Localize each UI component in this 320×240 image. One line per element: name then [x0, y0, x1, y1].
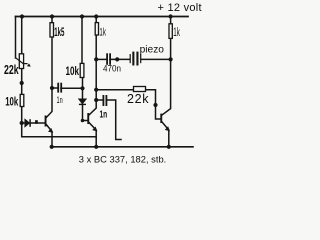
wire piezo to right riser — [141, 58, 171, 60]
resistor 1k (middle) body — [95, 23, 98, 35]
node dot bottom rail Q3 — [167, 145, 171, 149]
node dot rail 1k mid — [94, 14, 98, 18]
wire +12V top rail — [16, 16, 189, 18]
wire bottom 0V rail — [52, 146, 193, 148]
svg-text:1k: 1k — [99, 25, 106, 37]
wire 470n to piezo — [110, 58, 130, 60]
node dot 1n right branch — [94, 98, 98, 102]
svg-text:10k: 10k — [5, 96, 18, 109]
diode D3 (vertical, pointing down) — [79, 99, 86, 104]
wire Q1 collector riser — [46, 37, 52, 118]
node dot rail 10k mid — [80, 14, 84, 18]
wire D3 cathode to Q2 base — [83, 105, 88, 121]
wire left 1n cap lead left — [52, 87, 58, 89]
wire right riser 1k bottom to Q3 collector — [162, 38, 171, 115]
svg-text:10k: 10k — [66, 66, 80, 79]
diode D2 (small block symbol) — [35, 120, 38, 124]
wire 22k to Q3 base — [146, 90, 161, 119]
resistor 1k5 body — [50, 23, 54, 37]
transistor Q1 — [45, 116, 54, 133]
svg-text:3 x BC 337, 182, stb.: 3 x BC 337, 182, stb. — [79, 155, 167, 166]
transistor Q2 — [87, 113, 97, 131]
potentiometer 22k body — [19, 54, 23, 69]
wire pot bottom to 10k — [21, 69, 23, 95]
capacitor C2 470n plates — [107, 53, 110, 65]
svg-text:+ 12 volt: + 12 volt — [158, 2, 202, 14]
svg-text:piezo: piezo — [140, 44, 165, 55]
wire 1k (middle) top to rail — [95, 17, 97, 23]
wire 470n lead left — [96, 58, 107, 60]
svg-text:470n: 470n — [103, 63, 121, 74]
node dot 470n branch — [94, 57, 98, 61]
node dot rail 1k5 — [50, 14, 54, 18]
potentiometer 22k wiper arrow — [16, 58, 31, 67]
node dot bottom rail Q1 — [50, 145, 54, 149]
diode D1 — [25, 119, 30, 127]
node dot bottom rail Q2 — [94, 145, 98, 149]
node dot 22k branch — [94, 88, 98, 92]
wire 10k bottom to diode junction and down to ground wire — [22, 107, 97, 137]
capacitor C1 1n (left) plates — [58, 83, 61, 93]
node dot 22k wire mid — [153, 103, 157, 107]
node dot rail 1k right — [169, 14, 173, 18]
svg-text:22k: 22k — [127, 92, 149, 106]
wire 1k5 top to rail — [51, 17, 53, 23]
node dot 10k bottom / cap / D3 junction — [80, 86, 84, 90]
resistor 22k (horizontal) body — [134, 87, 146, 92]
svg-text:1n: 1n — [100, 108, 108, 120]
capacitor C3 1n (right) plates — [103, 95, 106, 106]
node dot piezo line mid — [115, 57, 119, 61]
svg-text:1k: 1k — [173, 26, 180, 38]
wire left drop from rail corner to pot wiper — [15, 17, 17, 59]
wire right riser rail to piezo node — [170, 17, 172, 24]
transistor Q3 — [160, 114, 170, 132]
svg-text:1k5: 1k5 — [54, 26, 65, 40]
wire middle 10k bottom to diode D3 — [82, 78, 84, 100]
wire middle 10k feed from rail — [81, 17, 83, 64]
node dot piezo to collector riser — [169, 57, 173, 61]
wire 22k feed from Q2 collector — [96, 89, 133, 91]
wire Q2 collector riser — [89, 35, 96, 115]
svg-text:22k: 22k — [4, 63, 19, 77]
node dot rail left — [20, 14, 24, 18]
wire pot top feed — [21, 17, 23, 54]
node dot pot-10k midpoint — [20, 81, 24, 85]
wire Q1 emitter down to bottom rail — [46, 125, 52, 147]
wire Q2 emitter down to bottom rail — [89, 123, 96, 147]
wire diode row to Q1 base — [22, 122, 45, 124]
wire right 1n cap lead to stub — [106, 100, 121, 140]
resistor 10k (left) body — [20, 94, 24, 106]
piezo transducer symbol — [130, 52, 141, 66]
wire Q3 emitter down to bottom rail — [162, 122, 169, 147]
svg-text:1n: 1n — [57, 95, 63, 106]
wire left 1n cap lead right to 10k bottom junction — [61, 87, 83, 89]
node dot D3 to base corner — [81, 119, 85, 123]
node dot Q1 collector / 1n tap — [50, 86, 54, 90]
resistor 10k (middle) body — [80, 63, 84, 77]
wire right 1n cap lead left — [96, 99, 103, 101]
resistor 1k (right) body — [169, 24, 172, 39]
node dot diode junction — [20, 121, 24, 125]
